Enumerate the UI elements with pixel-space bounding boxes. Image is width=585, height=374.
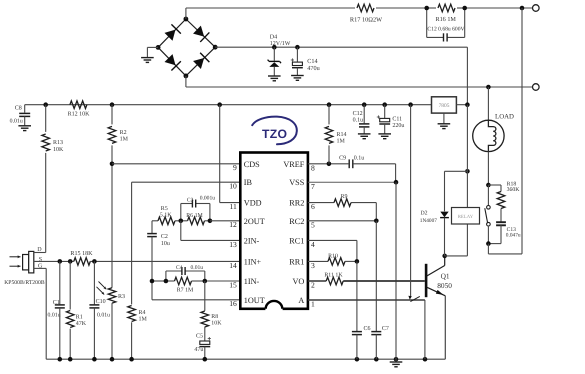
svg-text:R4: R4 — [139, 310, 146, 316]
svg-text:G: G — [38, 264, 43, 270]
svg-text:2OUT: 2OUT — [244, 217, 265, 226]
svg-text:VDD: VDD — [244, 199, 262, 208]
svg-text:C11: C11 — [392, 117, 402, 123]
svg-text:15: 15 — [229, 280, 237, 289]
svg-text:8: 8 — [311, 163, 315, 172]
svg-text:11: 11 — [229, 202, 237, 211]
svg-text:9: 9 — [233, 163, 237, 172]
svg-text:C7: C7 — [382, 326, 389, 332]
svg-text:R15 18K: R15 18K — [70, 250, 93, 257]
svg-text:5: 5 — [311, 220, 315, 229]
svg-text:5.1K: 5.1K — [160, 212, 173, 218]
svg-text:R16 1M: R16 1M — [435, 16, 456, 23]
svg-text:C5: C5 — [196, 333, 203, 339]
svg-text:C10: C10 — [96, 299, 106, 305]
svg-text:CDS: CDS — [244, 160, 260, 169]
svg-text:R11 1K: R11 1K — [324, 273, 343, 279]
svg-text:RELAY: RELAY — [458, 214, 474, 220]
svg-text:0.01u: 0.01u — [97, 312, 110, 318]
svg-text:D: D — [37, 247, 42, 253]
svg-text:0.01u: 0.01u — [48, 312, 61, 318]
svg-text:R9: R9 — [340, 194, 347, 200]
svg-text:4: 4 — [311, 240, 315, 249]
svg-text:12: 12 — [229, 220, 237, 229]
svg-text:47u: 47u — [194, 347, 203, 353]
svg-text:470u: 470u — [307, 65, 319, 72]
svg-text:0.047u: 0.047u — [506, 233, 521, 239]
svg-text:1M: 1M — [337, 139, 346, 145]
svg-text:13: 13 — [229, 240, 237, 249]
svg-text:C12: C12 — [353, 111, 363, 117]
svg-text:R5: R5 — [161, 206, 168, 212]
svg-text:TZO: TZO — [262, 127, 287, 141]
svg-text:16: 16 — [229, 299, 237, 308]
svg-text:0.1u: 0.1u — [353, 118, 364, 124]
svg-text:360K: 360K — [507, 187, 521, 193]
svg-text:IB: IB — [244, 178, 253, 187]
svg-text:47K: 47K — [76, 321, 87, 327]
svg-text:R14: R14 — [337, 132, 347, 138]
svg-text:C8: C8 — [15, 106, 22, 112]
svg-text:C2: C2 — [161, 234, 168, 240]
svg-text:D4: D4 — [270, 35, 277, 41]
svg-text:1: 1 — [311, 299, 315, 308]
svg-text:RC2: RC2 — [289, 217, 304, 226]
svg-text:RR2: RR2 — [289, 199, 304, 208]
svg-text:R6 1M: R6 1M — [186, 213, 203, 219]
svg-text:7: 7 — [311, 182, 315, 191]
svg-text:D2: D2 — [421, 211, 428, 217]
svg-text:RC1: RC1 — [289, 236, 304, 245]
svg-text:VSS: VSS — [289, 178, 304, 187]
svg-text:C12 0.68u 600V: C12 0.68u 600V — [427, 26, 464, 32]
svg-text:0.1u: 0.1u — [354, 156, 365, 162]
svg-text:1N4007: 1N4007 — [420, 218, 437, 224]
svg-text:12V/1W: 12V/1W — [270, 41, 291, 47]
svg-text:0.001u: 0.001u — [200, 196, 216, 202]
svg-text:A: A — [298, 296, 304, 305]
svg-text:1OUT: 1OUT — [244, 296, 265, 305]
svg-text:VREF: VREF — [283, 160, 304, 169]
svg-text:R7 1M: R7 1M — [177, 287, 194, 293]
svg-text:LOAD: LOAD — [495, 114, 514, 121]
svg-text:6: 6 — [311, 202, 315, 211]
svg-text:3: 3 — [311, 261, 315, 270]
svg-text:1M: 1M — [139, 316, 148, 322]
svg-text:R12 10K: R12 10K — [68, 112, 91, 118]
svg-text:2: 2 — [311, 281, 315, 290]
svg-text:0.01u: 0.01u — [191, 265, 204, 271]
svg-text:10K: 10K — [211, 321, 222, 327]
svg-text:Q1: Q1 — [441, 272, 450, 281]
svg-text:1IN+: 1IN+ — [244, 257, 262, 266]
svg-text:RR1: RR1 — [289, 257, 304, 266]
svg-text:8050: 8050 — [437, 281, 452, 290]
svg-text:R1: R1 — [76, 314, 83, 320]
svg-text:10u: 10u — [161, 241, 170, 247]
svg-text:220u: 220u — [392, 123, 404, 129]
svg-text:C3: C3 — [187, 197, 194, 203]
svg-text:C14: C14 — [307, 58, 317, 65]
svg-text:VO: VO — [292, 277, 304, 286]
svg-text:R3: R3 — [118, 294, 125, 300]
svg-text:1IN-: 1IN- — [244, 277, 260, 286]
svg-text:C4: C4 — [176, 265, 183, 271]
svg-text:C6: C6 — [364, 326, 371, 332]
svg-text:0.01u: 0.01u — [10, 118, 23, 124]
svg-text:C1: C1 — [53, 300, 60, 306]
svg-text:R10: R10 — [328, 254, 338, 260]
svg-text:10: 10 — [229, 182, 237, 191]
svg-text:KP500B/RT200B: KP500B/RT200B — [4, 280, 45, 286]
svg-text:2IN-: 2IN- — [244, 236, 260, 245]
svg-text:1M: 1M — [120, 137, 129, 143]
svg-text:7805: 7805 — [439, 103, 450, 109]
svg-text:R13: R13 — [53, 140, 63, 146]
svg-text:C9: C9 — [339, 156, 346, 162]
svg-text:R17 10Ω2W: R17 10Ω2W — [350, 17, 382, 24]
svg-text:14: 14 — [229, 261, 237, 270]
svg-text:R8: R8 — [211, 314, 218, 320]
svg-text:R2: R2 — [120, 130, 127, 136]
svg-text:10K: 10K — [53, 147, 64, 153]
